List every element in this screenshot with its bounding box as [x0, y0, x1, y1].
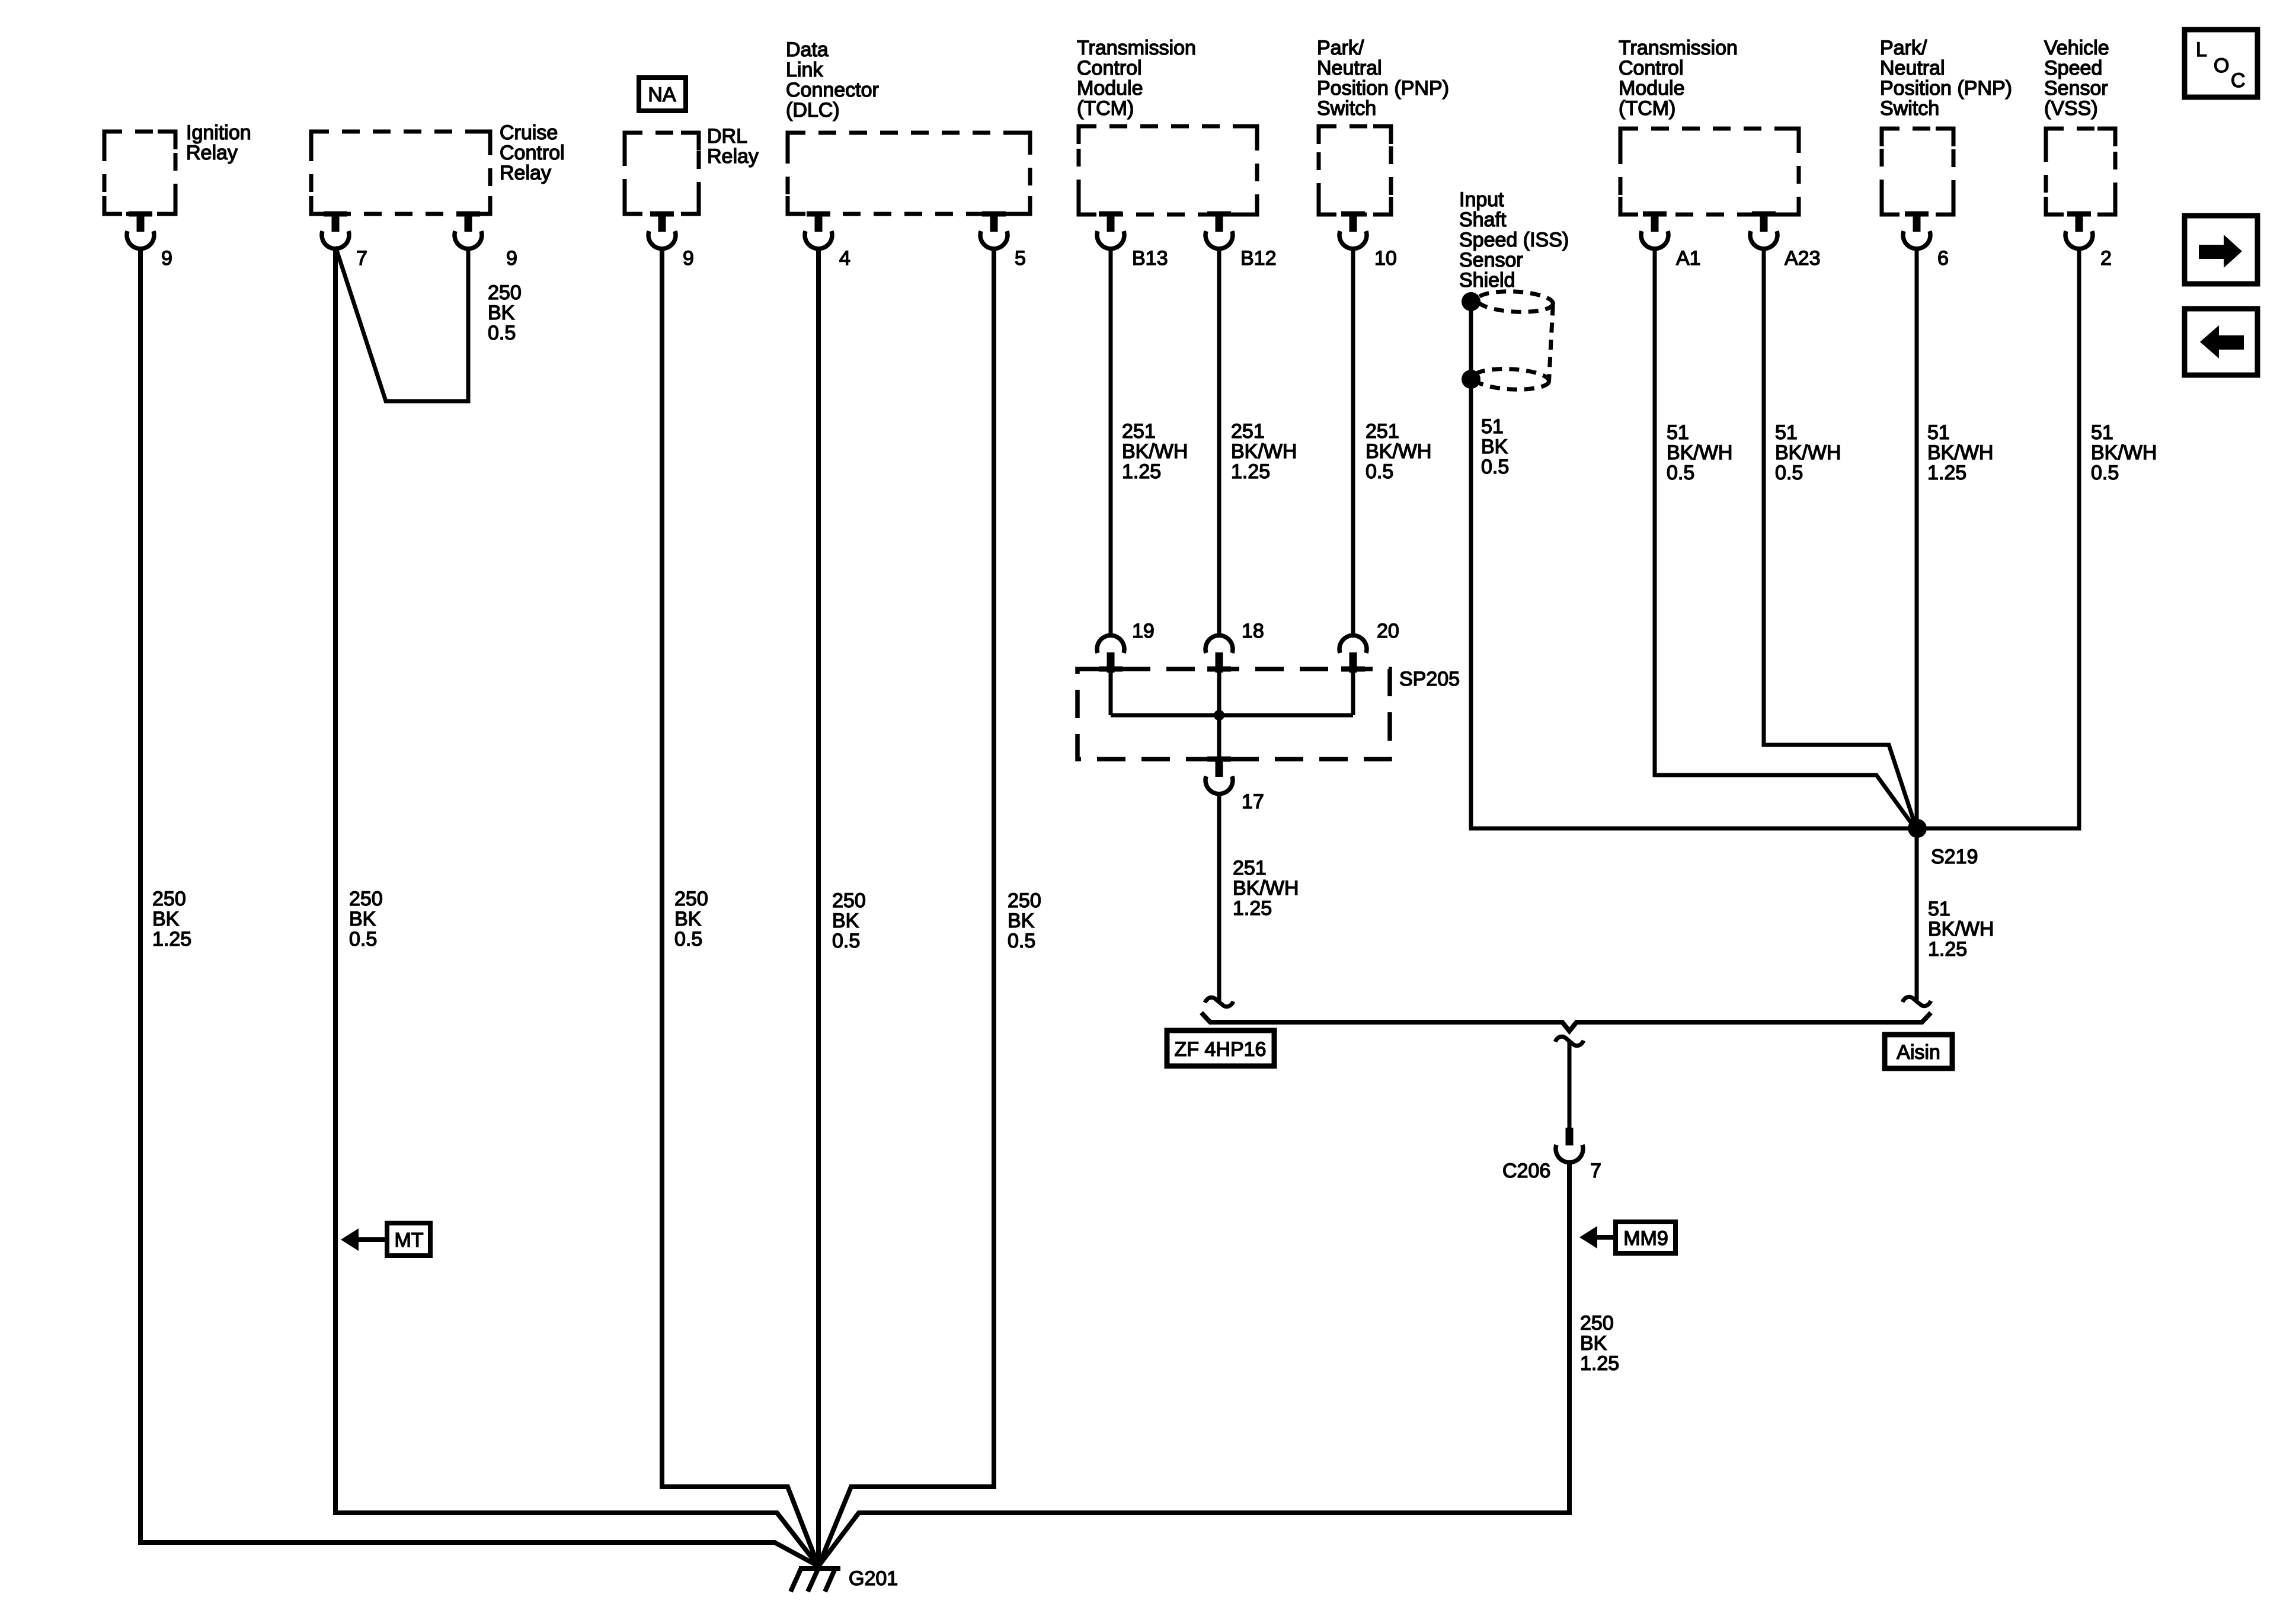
svg-text:BK: BK	[488, 302, 515, 324]
svg-text:(VSS): (VSS)	[2044, 97, 2098, 120]
wire 251 BK/WH 1.25 from SP205 pin 17 down to ZF 4HP16 harness	[1217, 793, 1221, 1001]
svg-text:Shield: Shield	[1459, 269, 1515, 292]
svg-text:Transmission: Transmission	[1619, 37, 1738, 59]
cruise control relay pin 9 connector	[455, 212, 482, 249]
svg-text:MM9: MM9	[1623, 1227, 1668, 1250]
svg-text:0.5: 0.5	[1667, 462, 1694, 484]
MM9 arrow pointer	[1579, 1226, 1616, 1249]
svg-text:51: 51	[1775, 421, 1798, 444]
svg-text:0.5: 0.5	[349, 928, 377, 950]
svg-text:Shaft: Shaft	[1459, 209, 1507, 231]
svg-text:250: 250	[488, 281, 522, 304]
pin number 5	[1015, 247, 1026, 270]
PNP right pin 6 connector	[1903, 212, 1930, 249]
svg-text:Position (PNP): Position (PNP)	[1880, 77, 2012, 100]
ignition relay label	[186, 121, 251, 164]
SP205 pin 20 connector	[1339, 635, 1367, 673]
svg-text:0.5: 0.5	[1008, 930, 1035, 952]
wire break at Aisin harness (S219 wire)	[1902, 997, 1931, 1006]
svg-text:B12: B12	[1240, 247, 1277, 270]
svg-text:251: 251	[1233, 857, 1267, 879]
TCM pin A1 connector	[1641, 212, 1668, 249]
wire label 51 BK/WH 1.25 (PNP 6)	[1927, 421, 1993, 484]
svg-text:Park/: Park/	[1317, 37, 1364, 59]
ISS shield upper terminal dot	[1462, 292, 1480, 311]
svg-text:0.5: 0.5	[2091, 462, 2119, 484]
wire label 51 BK/WH 0.5 (A23)	[1775, 421, 1841, 484]
svg-text:1.25: 1.25	[1928, 938, 1967, 961]
park/neutral position switch left (dashed box)	[1319, 126, 1391, 215]
svg-text:Input: Input	[1459, 188, 1504, 211]
svg-text:0.5: 0.5	[674, 928, 702, 950]
pin number 19	[1132, 620, 1155, 642]
splice junction dot	[1214, 710, 1224, 721]
svg-text:0.5: 0.5	[1481, 456, 1509, 478]
wire 250 BK 0.5 from cruise pin 7 to G201	[335, 248, 818, 1566]
svg-text:Control: Control	[500, 142, 565, 164]
wire 250 BK 0.5 from DLC pin 4 straight to G201	[816, 248, 821, 1567]
wire label 250 BK 0.5 (DLC pin 4)	[832, 889, 866, 952]
svg-text:BK: BK	[674, 908, 702, 930]
wire 250 BK 1.25 from C206 to G201	[818, 1161, 1569, 1566]
connector C206 pin 7	[1556, 1128, 1583, 1163]
pin number B13	[1132, 247, 1168, 270]
splice pack SP205 (dashed box)	[1077, 669, 1390, 759]
pin number 2	[2100, 247, 2112, 270]
wire 251 BK/WH 1.25 from TCM B12 to SP205 pin 18	[1217, 248, 1221, 637]
svg-text:Ignition: Ignition	[186, 121, 251, 144]
svg-text:Module: Module	[1077, 77, 1143, 100]
cruise control relay (dashed box)	[311, 132, 490, 214]
DLC pin 4 connector	[805, 212, 832, 249]
NA tag box	[639, 78, 686, 111]
ignition relay pin 9 connector	[127, 212, 154, 249]
svg-text:BK/WH: BK/WH	[1122, 440, 1188, 463]
SP205 name	[1399, 668, 1460, 690]
svg-text:BK/WH: BK/WH	[1366, 440, 1431, 463]
svg-text:250: 250	[832, 889, 866, 912]
svg-text:250: 250	[349, 888, 383, 910]
pin number 4	[839, 247, 850, 270]
svg-text:Speed (ISS): Speed (ISS)	[1459, 229, 1569, 251]
LOC legend box	[2185, 30, 2257, 97]
svg-text:BK/WH: BK/WH	[1231, 440, 1297, 463]
svg-text:BK/WH: BK/WH	[1233, 877, 1299, 900]
wire 250 BK 0.5 from DRL relay pin 9 to G201	[662, 248, 818, 1566]
svg-text:BK: BK	[349, 908, 376, 930]
svg-text:4: 4	[839, 247, 850, 270]
SP205 pin 18 connector	[1205, 635, 1233, 673]
DRL relay (dashed box)	[625, 133, 699, 214]
splice name S219	[1931, 846, 1978, 868]
svg-text:1.25: 1.25	[152, 928, 191, 950]
svg-text:BK/WH: BK/WH	[1667, 441, 1732, 464]
svg-text:SP205: SP205	[1399, 668, 1460, 690]
svg-text:Cruise: Cruise	[500, 121, 558, 144]
wire label 251 BK/WH 1.25 (pin 17)	[1233, 857, 1299, 920]
svg-text:Vehicle: Vehicle	[2044, 37, 2109, 59]
svg-text:Relay: Relay	[500, 162, 551, 184]
svg-text:1.25: 1.25	[1580, 1352, 1619, 1375]
pin number A1	[1676, 247, 1701, 270]
VSS pin 2 connector	[2065, 212, 2093, 249]
wire label 51 BK/WH 0.5 (A1)	[1667, 421, 1732, 484]
svg-text:1.25: 1.25	[1233, 897, 1272, 920]
pin number A23	[1785, 247, 1821, 270]
svg-text:51: 51	[1927, 421, 1950, 444]
splice bus inside SP205	[1111, 671, 1353, 761]
svg-text:Sensor: Sensor	[2044, 77, 2108, 100]
wire label 250 BK 1.25	[152, 888, 191, 950]
pin number 17	[1242, 790, 1264, 813]
wire label 51 BK/WH 1.25 (below S219)	[1928, 898, 1994, 961]
svg-text:51: 51	[1481, 415, 1504, 438]
wire 250 BK 0.5 from DLC pin 5 to G201	[818, 248, 994, 1566]
MM9 tag box	[1616, 1222, 1675, 1253]
svg-text:51: 51	[2091, 421, 2113, 444]
svg-text:Control: Control	[1077, 57, 1142, 79]
wire 251 BK/WH 1.25 from TCM B13 to SP205 pin 19	[1109, 248, 1113, 637]
PNP right label	[1880, 37, 2012, 120]
svg-text:Connector: Connector	[786, 79, 879, 101]
wire label 250 BK 0.5 (cruise pin 7)	[349, 888, 383, 950]
wire from bus to C206	[1568, 1042, 1572, 1129]
svg-text:Position (PNP): Position (PNP)	[1317, 77, 1449, 100]
wire label 250 BK 0.5 (DRL relay)	[674, 888, 708, 950]
DLC label	[786, 39, 879, 121]
DRL relay pin 9 connector	[648, 212, 676, 249]
svg-text:S219: S219	[1931, 846, 1978, 868]
pin number 20	[1377, 620, 1399, 642]
cruise control relay pin 7 connector	[322, 212, 349, 249]
svg-text:251: 251	[1231, 420, 1265, 443]
svg-text:BK/WH: BK/WH	[1928, 918, 1994, 940]
svg-text:L: L	[2196, 39, 2207, 61]
svg-text:Park/: Park/	[1880, 37, 1927, 59]
DRL relay label	[707, 125, 759, 168]
cruise control relay label	[500, 121, 565, 184]
svg-text:10: 10	[1374, 247, 1397, 270]
svg-text:BK: BK	[152, 908, 180, 930]
svg-text:A1: A1	[1676, 247, 1701, 270]
left arrow legend box	[2185, 309, 2257, 375]
svg-text:(DLC): (DLC)	[786, 99, 840, 121]
svg-text:Aisin: Aisin	[1897, 1041, 1940, 1064]
transmission harness bus line	[1201, 1013, 1931, 1031]
svg-text:ZF 4HP16: ZF 4HP16	[1175, 1038, 1267, 1061]
ISS shield dashed cylinder	[1473, 290, 1553, 391]
svg-text:250: 250	[1008, 889, 1041, 912]
ground name G201	[849, 1567, 898, 1590]
svg-text:2: 2	[2100, 247, 2112, 270]
svg-text:C206: C206	[1502, 1160, 1550, 1182]
ISS shield lower terminal dot	[1462, 370, 1480, 389]
svg-text:51: 51	[1928, 898, 1950, 920]
svg-text:O: O	[2214, 55, 2229, 77]
connector name C206	[1502, 1160, 1550, 1182]
svg-text:BK: BK	[1008, 910, 1035, 932]
TCM pin B12 connector	[1205, 212, 1233, 249]
pin number 7 (C206)	[1590, 1160, 1601, 1182]
TCM left label	[1077, 37, 1196, 120]
wire label 51 BK 0.5 (shield)	[1481, 415, 1509, 478]
svg-text:MT: MT	[394, 1229, 423, 1251]
pin number 7	[356, 247, 367, 270]
wire break below bus (C206 branch)	[1555, 1036, 1584, 1045]
svg-text:1.25: 1.25	[1927, 462, 1966, 484]
wire 250 BK 1.25 from ignition relay pin 9 to G201	[140, 248, 818, 1566]
svg-text:1.25: 1.25	[1231, 460, 1270, 483]
svg-text:Neutral: Neutral	[1317, 57, 1382, 79]
svg-text:Switch: Switch	[1880, 97, 1939, 120]
pin number 10	[1374, 247, 1397, 270]
vehicle speed sensor VSS (dashed box)	[2046, 129, 2115, 215]
svg-text:5: 5	[1015, 247, 1026, 270]
ZF 4HP16 tag box	[1167, 1030, 1274, 1066]
svg-text:250: 250	[1580, 1312, 1614, 1334]
svg-text:BK/WH: BK/WH	[1927, 441, 1993, 464]
svg-text:1.25: 1.25	[1122, 460, 1161, 483]
svg-text:Relay: Relay	[707, 145, 759, 168]
pin number 18	[1242, 620, 1264, 642]
SP205 pin 19 connector	[1097, 635, 1124, 673]
wire label 250 BK 1.25 (C206)	[1580, 1312, 1619, 1375]
svg-text:DRL: DRL	[707, 125, 747, 148]
svg-text:7: 7	[356, 247, 367, 270]
wire label 251 BK/WH 1.25 (B13)	[1122, 420, 1188, 483]
svg-text:17: 17	[1242, 790, 1264, 813]
wire 51 BK/WH 1.25 from PNP pin 6 through S219 to Aisin harness	[1915, 248, 1919, 1001]
svg-text:6: 6	[1937, 247, 1949, 270]
svg-text:Switch: Switch	[1317, 97, 1376, 120]
right arrow legend box	[2185, 216, 2257, 284]
svg-text:Transmission: Transmission	[1077, 37, 1196, 59]
wire label 251 BK/WH 1.25 (B12)	[1231, 420, 1297, 483]
svg-text:251: 251	[1122, 420, 1156, 443]
ignition relay (dashed box)	[104, 132, 175, 214]
input shaft speed sensor shield label	[1459, 188, 1569, 292]
svg-text:(TCM): (TCM)	[1077, 97, 1134, 120]
TCM pin A23 connector	[1750, 212, 1777, 249]
pin number 9 (DRL relay)	[683, 247, 694, 270]
svg-text:18: 18	[1242, 620, 1264, 642]
svg-text:(TCM): (TCM)	[1619, 97, 1675, 120]
svg-text:250: 250	[152, 888, 186, 910]
svg-text:0.5: 0.5	[1775, 462, 1803, 484]
svg-text:0.5: 0.5	[832, 930, 860, 952]
wire 251 BK/WH 0.5 from PNP pin 10 to SP205 pin 20	[1351, 248, 1355, 637]
wire 51 BK/WH 0.5 from TCM A23 to S219	[1764, 248, 1916, 826]
svg-text:BK/WH: BK/WH	[2091, 441, 2157, 464]
svg-text:BK: BK	[1580, 1332, 1607, 1355]
wire label 251 BK/WH 0.5 (PNP 10)	[1366, 420, 1431, 483]
pin number B12	[1240, 247, 1277, 270]
VSS label	[2044, 37, 2109, 120]
svg-text:Module: Module	[1619, 77, 1685, 100]
svg-text:Link: Link	[786, 59, 823, 81]
wire 51 BK 0.5 from ISS shield to S219	[1471, 302, 1917, 828]
Aisin tag box	[1885, 1035, 1952, 1068]
svg-text:9: 9	[683, 247, 694, 270]
wire label 250 BK 0.5 (cruise pin 9)	[488, 281, 522, 344]
svg-text:Control: Control	[1619, 57, 1684, 79]
svg-text:C: C	[2231, 69, 2246, 92]
svg-text:9: 9	[506, 247, 517, 270]
svg-text:B13: B13	[1132, 247, 1168, 270]
svg-text:250: 250	[674, 888, 708, 910]
ground G201 symbol	[791, 1567, 840, 1592]
TCM right label	[1619, 37, 1738, 120]
pin number 9 (ignition relay)	[161, 247, 172, 270]
svg-text:51: 51	[1667, 421, 1689, 444]
transmission control module TCM left (dashed box)	[1079, 126, 1257, 215]
svg-text:9: 9	[161, 247, 172, 270]
DLC pin 5 connector	[980, 212, 1008, 249]
data link connector DLC (dashed box)	[788, 133, 1030, 214]
wire label 250 BK 0.5 (DLC pin 5)	[1008, 889, 1041, 952]
transmission control module TCM right (dashed box)	[1620, 129, 1799, 215]
svg-text:BK: BK	[1481, 436, 1508, 458]
svg-text:Data: Data	[786, 39, 829, 61]
svg-text:0.5: 0.5	[488, 322, 516, 344]
MT tag box	[387, 1223, 430, 1256]
svg-text:Relay: Relay	[186, 142, 238, 164]
svg-text:19: 19	[1132, 620, 1155, 642]
pin number 9 (cruise control relay)	[506, 247, 517, 270]
svg-text:BK: BK	[832, 910, 859, 932]
wire break at ZF harness (pin 17 wire)	[1205, 997, 1233, 1006]
svg-text:Speed: Speed	[2044, 57, 2102, 79]
svg-text:20: 20	[1377, 620, 1399, 642]
wire 51 BK/WH 0.5 from VSS pin 2 to S219	[1917, 248, 2079, 828]
splice S219 junction dot	[1908, 819, 1927, 838]
TCM pin B13 connector	[1097, 212, 1124, 249]
PNP left label	[1317, 37, 1449, 120]
PNP left pin 10 connector	[1339, 212, 1367, 249]
park/neutral position switch right (dashed box)	[1882, 129, 1953, 215]
svg-text:NA: NA	[648, 84, 676, 106]
svg-text:251: 251	[1366, 420, 1399, 443]
svg-text:Neutral: Neutral	[1880, 57, 1945, 79]
SP205 pin 17 connector	[1205, 757, 1233, 794]
wire 250 BK 0.5 loop from cruise pin 9 into pin 7 node	[335, 247, 468, 401]
svg-text:BK/WH: BK/WH	[1775, 441, 1841, 464]
MT arrow pointer	[341, 1228, 387, 1251]
svg-text:Sensor: Sensor	[1459, 249, 1523, 271]
wire 51 BK/WH 0.5 from TCM A1 to S219	[1655, 248, 1914, 827]
svg-text:0.5: 0.5	[1366, 460, 1393, 483]
wire label 51 BK/WH 0.5 (VSS 2)	[2091, 421, 2157, 484]
pin number 6	[1937, 247, 1949, 270]
svg-text:A23: A23	[1785, 247, 1821, 270]
svg-text:G201: G201	[849, 1567, 898, 1590]
svg-text:7: 7	[1590, 1160, 1601, 1182]
